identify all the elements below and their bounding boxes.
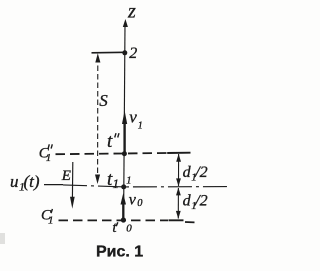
u1 lead solid line [44, 184, 63, 186]
vector v1 shaft [123, 120, 125, 153]
upper d1/2 dimension line [178, 154, 180, 186]
left edge scan smudge [0, 233, 5, 244]
svg-text:/2: /2 [194, 164, 207, 181]
S dimension dashed line [97, 57, 99, 178]
node 2 dot [122, 50, 127, 55]
top horizontal line at point 2 [92, 51, 126, 54]
vector v1 arrowhead [122, 111, 127, 125]
node t'' dot [122, 151, 127, 156]
node t1 dot [121, 184, 126, 189]
svg-text:1: 1 [138, 120, 143, 131]
svg-text:v: v [129, 107, 137, 126]
S dimension top arrowhead [95, 53, 100, 62]
svg-text:0: 0 [137, 198, 143, 209]
node 0 dot [121, 217, 126, 222]
svg-text:t: t [107, 131, 113, 152]
plate C1' dashed line [59, 219, 169, 221]
center dash-dot line [63, 185, 229, 187]
E field arrow line [71, 162, 73, 199]
svg-text:1: 1 [126, 176, 131, 187]
lower d1/2 dimension line [177, 188, 179, 219]
vector v0 shaft [122, 202, 124, 220]
svg-text:1: 1 [46, 152, 52, 164]
svg-text:z: z [127, 1, 136, 23]
svg-text:u: u [10, 172, 19, 191]
S dimension bottom arrowhead [95, 175, 100, 185]
svg-text:S: S [99, 91, 108, 110]
svg-text:1: 1 [113, 176, 120, 191]
svg-text:E: E [61, 168, 71, 184]
z axis line [124, 24, 125, 219]
E field arrowhead [70, 197, 75, 209]
lower d1/2 bottom arrowhead [176, 211, 181, 219]
svg-text:v: v [129, 191, 137, 208]
svg-text:/2: /2 [194, 193, 207, 210]
svg-text:2: 2 [129, 45, 137, 62]
svg-text:t: t [112, 220, 117, 236]
upper d1/2 top arrowhead [176, 154, 181, 162]
svg-text:0: 0 [126, 222, 132, 234]
svg-text:(t): (t) [24, 172, 40, 191]
svg-text:Рис. 1: Рис. 1 [96, 244, 143, 261]
plate C1'' dashed line [56, 153, 167, 154]
svg-text:1: 1 [48, 214, 54, 226]
upper d1/2 bottom arrowhead [176, 178, 181, 186]
lower d1/2 top arrowhead [176, 188, 181, 196]
z axis arrowhead [123, 19, 128, 27]
vector v0 arrowhead [121, 193, 127, 204]
